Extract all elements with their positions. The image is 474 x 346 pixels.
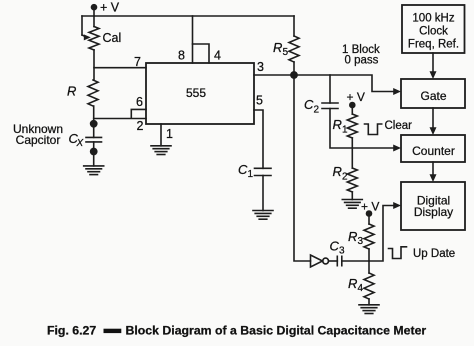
wire rail to pin 8 xyxy=(192,16,194,63)
power +V (R3) xyxy=(361,200,379,217)
clear pulse waveform xyxy=(365,124,382,135)
wire C1 to ground xyxy=(262,176,264,211)
inverter U2 xyxy=(311,255,329,267)
capacitor C3 xyxy=(337,256,342,265)
svg-text:Up Date: Up Date xyxy=(413,248,455,260)
wire node to C2 xyxy=(329,75,331,103)
timer IC 555 xyxy=(146,63,254,124)
wire +V rail xyxy=(82,15,294,17)
wire junction to Digital Display update input xyxy=(369,206,394,262)
label C2 xyxy=(304,97,320,116)
wire R to Cx xyxy=(93,106,95,137)
node dot (Cx bottom) xyxy=(90,148,98,156)
wire Cal to R / pin7 node xyxy=(93,50,95,80)
label 1 Block 0 pass xyxy=(342,44,380,66)
svg-text:Counter: Counter xyxy=(412,144,455,158)
wire R1 to R2 xyxy=(351,138,353,168)
block Digital Display xyxy=(401,182,465,230)
svg-text:Cal: Cal xyxy=(103,31,122,45)
label R4 xyxy=(348,276,364,294)
svg-text:100 kHz: 100 kHz xyxy=(412,13,454,25)
svg-text:7: 7 xyxy=(134,55,141,69)
svg-text:C: C xyxy=(304,97,314,112)
svg-text:C: C xyxy=(330,239,340,254)
wire gate to counter xyxy=(432,108,434,128)
wire clock to gate xyxy=(432,53,434,72)
block Counter xyxy=(401,135,465,162)
svg-text:+ V: + V xyxy=(100,1,120,15)
svg-text:8: 8 xyxy=(178,49,185,63)
resistor R5 xyxy=(289,16,299,75)
wire Cx to ground xyxy=(93,142,95,166)
ground (below Cx) xyxy=(84,166,104,175)
svg-text:R: R xyxy=(333,117,342,132)
label R3 xyxy=(348,229,364,247)
label Unknown Capcitor xyxy=(13,122,63,147)
power +V (top left) xyxy=(91,1,120,17)
wire C2 to Counter clear input xyxy=(330,109,394,149)
svg-text:Capcitor: Capcitor xyxy=(16,133,61,147)
wire node to Gate input xyxy=(294,75,394,92)
wire node to inverter input xyxy=(294,75,311,261)
label C1 xyxy=(238,162,254,180)
wire R2 to ground xyxy=(351,192,353,200)
svg-text:+ V: + V xyxy=(347,90,365,104)
wire inverter to C3 xyxy=(329,260,338,262)
resistor R1 xyxy=(347,105,357,138)
label Cx xyxy=(69,131,84,149)
label R2 xyxy=(333,164,349,183)
wire counter to display xyxy=(432,162,434,175)
svg-text:Block Diagram of a Basic Digit: Block Diagram of a Basic Digital Capacit… xyxy=(126,324,427,338)
svg-text:R: R xyxy=(348,276,357,291)
svg-text:1: 1 xyxy=(166,127,173,141)
svg-text:Fig. 6.27: Fig. 6.27 xyxy=(47,324,96,338)
label C3 xyxy=(330,239,346,257)
wire pin 5 xyxy=(254,110,263,168)
resistor R xyxy=(88,80,98,106)
svg-text:Freq, Ref.: Freq, Ref. xyxy=(408,38,459,50)
svg-text:R: R xyxy=(333,164,342,179)
wire pin 7 xyxy=(94,67,146,69)
wire C3 to R3/R4 junction xyxy=(342,260,369,262)
label R5 xyxy=(273,40,289,58)
svg-text:C: C xyxy=(238,162,248,177)
svg-text:5: 5 xyxy=(256,94,263,108)
resistor R2 xyxy=(347,168,357,192)
up-date pulse waveform xyxy=(389,247,407,259)
svg-text:1: 1 xyxy=(342,125,348,136)
svg-text:R: R xyxy=(273,40,282,55)
svg-text:1: 1 xyxy=(248,169,254,180)
ground (pin 1) xyxy=(151,146,171,155)
svg-text:Gate: Gate xyxy=(420,89,446,103)
svg-text:4: 4 xyxy=(214,49,221,63)
svg-text:2: 2 xyxy=(314,105,320,116)
svg-text:4: 4 xyxy=(358,283,364,294)
node dot (pin3/R5) xyxy=(290,71,298,79)
potentiometer Cal xyxy=(82,16,121,50)
svg-text:3: 3 xyxy=(257,60,264,74)
svg-text:3: 3 xyxy=(339,246,345,257)
capacitor C1 xyxy=(255,168,272,175)
svg-text:R: R xyxy=(67,84,76,99)
resistor R3 xyxy=(364,214,374,262)
wire pin 1 to ground xyxy=(160,124,162,146)
svg-text:+ V: + V xyxy=(361,200,379,214)
svg-text:3: 3 xyxy=(358,236,364,247)
capacitor Cx xyxy=(86,137,102,142)
wire pin 8 to pin 4 bracket xyxy=(193,44,210,63)
svg-text:2: 2 xyxy=(342,172,348,183)
capacitor C2 xyxy=(322,103,338,109)
block Gate xyxy=(401,79,465,108)
svg-text:5: 5 xyxy=(283,47,289,58)
svg-text:555: 555 xyxy=(186,86,206,100)
ground (C1) xyxy=(253,211,273,220)
wire rail stub to Cal wiper xyxy=(81,16,83,35)
junction dot (R/Cx/pin2 node) xyxy=(90,120,98,128)
wire pins 6 and 2 xyxy=(94,109,146,118)
svg-text:X: X xyxy=(76,138,84,149)
svg-text:R: R xyxy=(348,229,357,244)
power +V (R1) xyxy=(347,90,365,108)
label R1 xyxy=(333,117,349,136)
block 100kHz Clock xyxy=(402,5,465,53)
ground (R4) xyxy=(359,305,379,314)
ground (R2) xyxy=(342,200,362,209)
svg-text:Clock: Clock xyxy=(419,26,448,38)
svg-text:6: 6 xyxy=(136,95,143,109)
wire pin 3 xyxy=(254,74,294,76)
svg-text:0 pass: 0 pass xyxy=(345,54,379,66)
svg-text:Display: Display xyxy=(414,205,453,219)
resistor R4 xyxy=(364,261,374,305)
svg-text:2: 2 xyxy=(137,119,144,133)
svg-text:Clear: Clear xyxy=(385,120,413,132)
caption Fig. 6.27 xyxy=(47,324,426,338)
